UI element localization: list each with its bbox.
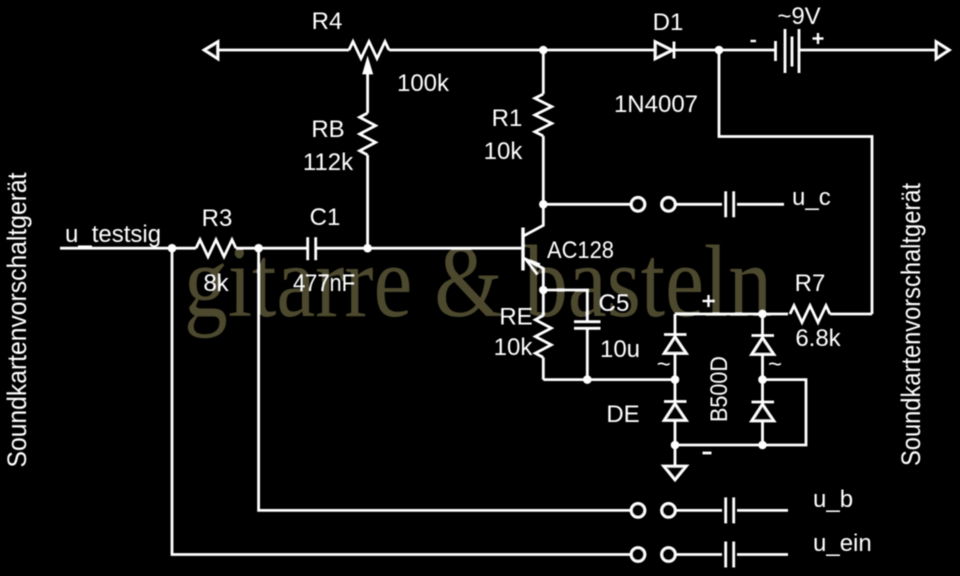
capacitor u_ein (724, 542, 727, 568)
svg-text:10u: 10u (600, 336, 640, 363)
wire R1 bottom to collector node (542, 136, 545, 204)
wire battery to right arrow (799, 49, 936, 52)
bridge plus sign (703, 300, 715, 302)
wire switch to cap u_b (676, 509, 722, 512)
svg-text:6.8k: 6.8k (795, 325, 841, 352)
capacitor u_b (724, 497, 727, 523)
wire top rail left (217, 49, 349, 52)
potentiometer R4 wiper arrow (364, 61, 371, 74)
wire top rail mid (389, 49, 655, 52)
bridge right branch top lead (761, 314, 764, 336)
junction node rail/R1 (539, 46, 548, 55)
wire node D1K down (719, 50, 872, 314)
svg-text:8k: 8k (203, 270, 229, 297)
svg-text:B500D: B500D (706, 356, 733, 422)
wire input line u_testsig (60, 247, 196, 250)
transistor Q1 emitter lead (524, 258, 544, 290)
svg-text:100k: 100k (397, 70, 450, 97)
battery plus sign (813, 37, 824, 39)
wire bridge bottom rail (675, 444, 763, 447)
junction node bridge AC2 (758, 375, 767, 384)
battery B1 ~9V (774, 41, 777, 61)
ground symbol (664, 466, 687, 480)
svg-text:10k: 10k (494, 334, 534, 361)
svg-text:10k: 10k (484, 138, 524, 165)
svg-text:C5: C5 (599, 290, 630, 317)
resistor R7 (790, 306, 830, 323)
resistor R4 (349, 42, 389, 59)
svg-text:Soundkartenvorschaltgerät: Soundkartenvorschaltgerät (2, 172, 32, 467)
wire emitter to RE (542, 290, 545, 316)
resistor RB (360, 113, 376, 155)
resistor R3 (196, 240, 236, 257)
wire R1 top lead (542, 50, 545, 94)
junction node bridge plus / R7 (758, 310, 767, 319)
diode bridge top-left (664, 333, 687, 336)
junction node bridge minus left (671, 441, 680, 450)
capacitor C5 (574, 320, 601, 323)
svg-text:~9V: ~9V (777, 3, 820, 30)
switch contact circle u_ein (631, 548, 645, 562)
wire RE bottom (542, 358, 545, 380)
wire emitter to C5 (543, 290, 587, 322)
wire RB bottom to input line (366, 155, 369, 248)
svg-text:R3: R3 (202, 205, 233, 232)
wire shorting loop AC2 to minus (763, 380, 807, 445)
junction node emitter (539, 286, 548, 295)
svg-text:1N4007: 1N4007 (614, 91, 698, 118)
junction node RB/input (363, 244, 372, 253)
svg-text:DE: DE (606, 401, 639, 428)
wire collector node to switch (543, 203, 631, 206)
wire cap to u_ein label (737, 553, 788, 556)
ground lead (674, 445, 677, 466)
wire cap to u_b label (737, 509, 788, 512)
junction node input/u_ein (168, 244, 177, 253)
wire D1 to battery (675, 49, 776, 52)
diode bridge bottom-left (674, 380, 677, 402)
right arrow (top rail output) (936, 42, 950, 60)
svg-text:u_c: u_c (792, 184, 831, 211)
svg-text:112k: 112k (303, 149, 354, 176)
switch contact circle (631, 197, 645, 211)
svg-text:R7: R7 (795, 270, 826, 297)
svg-text:RE: RE (499, 304, 532, 331)
wire cap to u_c label (737, 203, 784, 206)
wire R7 right lead (830, 313, 872, 316)
junction node bridge minus right (758, 441, 767, 450)
bridge minus sign (703, 452, 712, 455)
svg-text:AC128: AC128 (547, 237, 614, 264)
wire C1 to base (316, 247, 522, 250)
switch contact circle (662, 197, 676, 211)
svg-text:u_ein: u_ein (813, 530, 872, 557)
junction node C5 bottom (583, 375, 592, 384)
svg-text:RB: RB (311, 116, 344, 143)
diode bridge top-right (752, 334, 775, 337)
svg-text:gitarre & basteln: gitarre & basteln (184, 225, 772, 339)
wire C5 bottom (586, 328, 589, 379)
junction node collector (539, 200, 548, 209)
svg-text:477nF: 477nF (293, 270, 355, 297)
wire emitter rail to bridge AC1 (543, 378, 675, 381)
wire u_b vertical from R3/C1 node (259, 248, 631, 510)
transistor Q1 emitter arrow (PNP) (526, 259, 541, 264)
junction node bridge AC1 (671, 375, 680, 384)
diode D1 (655, 42, 673, 60)
svg-text:C1: C1 (310, 204, 341, 231)
wire R3 to C1 (236, 247, 308, 250)
svg-text:R1: R1 (492, 105, 523, 132)
svg-text:~: ~ (657, 351, 671, 378)
svg-text:R4: R4 (312, 8, 343, 35)
capacitor u_c (724, 191, 727, 217)
resistor RE (535, 316, 551, 358)
transistor Q1 AC128 collector lead (524, 204, 544, 236)
svg-text:Soundkartenvorschaltgerät: Soundkartenvorschaltgerät (896, 183, 926, 466)
resistor R1 (535, 94, 552, 136)
wire switch to cap u_ein (676, 553, 722, 556)
diode bridge bottom-right (761, 380, 764, 402)
battery minus sign (751, 40, 757, 42)
svg-text:u_b: u_b (813, 486, 853, 513)
switch contact circle u_b (631, 503, 645, 517)
wire R7 to bridge plus (763, 313, 789, 316)
wire u_ein vertical from input node (172, 248, 631, 554)
transistor Q1 base bar (521, 228, 524, 271)
capacitor C1 (306, 237, 309, 260)
svg-text:u_testsig: u_testsig (65, 221, 161, 248)
wire switch to cap u_c (676, 203, 722, 206)
junction node D1/battery (715, 46, 724, 55)
bridge DE B500D : left branch top lead (674, 314, 677, 335)
svg-text:D1: D1 (653, 9, 684, 36)
left arrow (top rail output) (204, 42, 218, 60)
junction node R3/C1/u_b (254, 244, 263, 253)
wire bridge top rail (675, 313, 763, 316)
svg-text:~: ~ (768, 351, 782, 378)
